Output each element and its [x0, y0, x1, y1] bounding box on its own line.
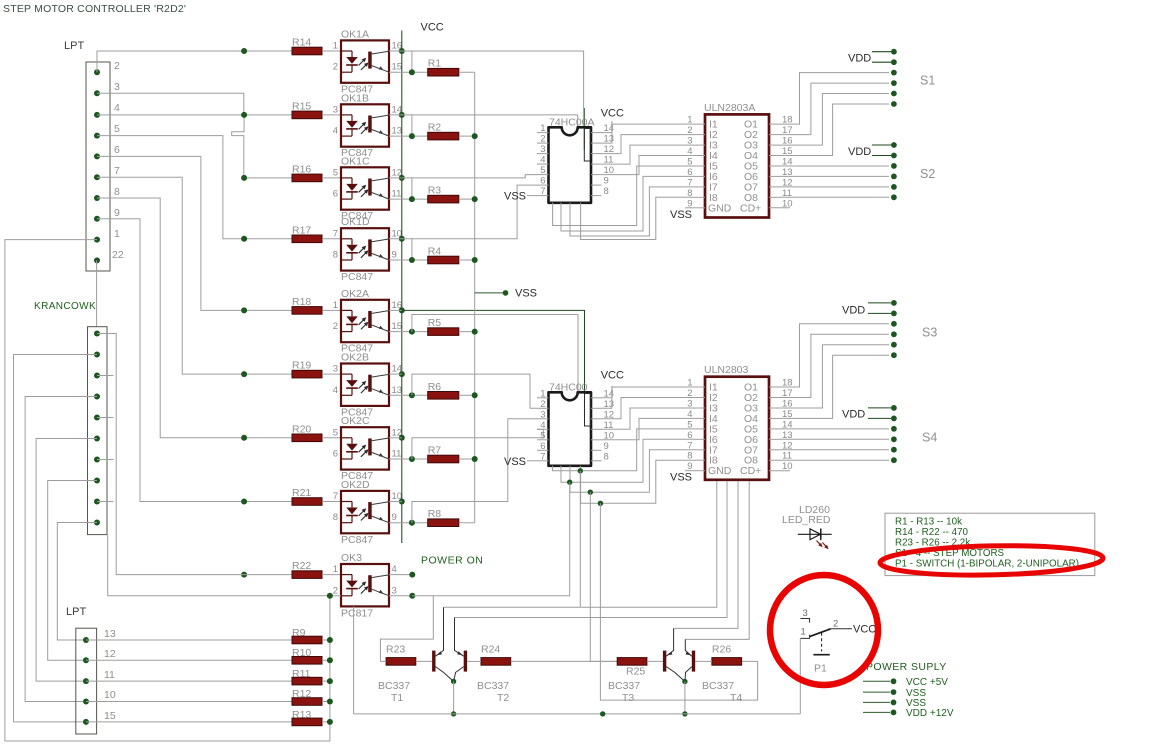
svg-text:R23: R23 [386, 644, 405, 656]
svg-text:R1 - R13 -- 10k: R1 - R13 -- 10k [895, 517, 962, 528]
svg-text:VDD: VDD [842, 305, 865, 317]
svg-text:R25: R25 [626, 666, 645, 678]
optocoupler OK1A [333, 28, 402, 95]
svg-text:4: 4 [114, 102, 120, 114]
wire OK3 pin4 stub [389, 572, 415, 578]
wire T4 base feed loop [600, 503, 757, 700]
svg-text:4: 4 [333, 126, 338, 137]
svg-text:12: 12 [104, 648, 116, 660]
resistor R18 [292, 296, 341, 314]
svg-text:10: 10 [104, 689, 116, 701]
wire OK1B collector row to gate [389, 115, 578, 127]
svg-text:13: 13 [392, 385, 403, 396]
svg-text:4: 4 [333, 385, 338, 396]
optocoupler OK2C [333, 415, 402, 482]
resistor R25 [617, 658, 663, 678]
wire T3 collector net [674, 481, 738, 628]
wire T4 collector net [685, 481, 749, 639]
svg-text:3: 3 [114, 81, 120, 93]
IC U1 74HC00A [537, 117, 614, 203]
VCC green feed HC2 [402, 310, 585, 415]
node taps to transistors [567, 468, 603, 506]
wire OK1C collector row to gate [389, 175, 537, 178]
connector S3 [891, 300, 897, 358]
wire OK2 collector stubs [389, 310, 402, 501]
svg-text:6: 6 [333, 189, 338, 200]
optocoupler OK2A [333, 288, 402, 355]
connector S1 [891, 49, 897, 107]
resistor R21 [292, 487, 341, 505]
svg-text:R17: R17 [292, 224, 311, 236]
svg-text:T4: T4 [730, 692, 742, 704]
KRANCOWK pins [94, 331, 100, 526]
VCC label U3 [601, 370, 624, 398]
resistor R2 [428, 122, 475, 140]
svg-text:PC847: PC847 [341, 271, 373, 283]
VDD label S4 [842, 408, 891, 421]
resistor R1 [428, 58, 475, 76]
svg-text:S4: S4 [922, 431, 937, 445]
svg-text:2: 2 [540, 134, 545, 145]
resistor R23 [380, 644, 432, 666]
wires U3 outputs to U4 inputs [553, 387, 695, 503]
VSS label U1 [504, 191, 537, 203]
parts list box [885, 513, 1095, 575]
wire K8 left loop [48, 481, 97, 661]
connector S4 [891, 405, 897, 463]
wire T1 collector net [444, 471, 717, 607]
svg-text:5: 5 [333, 427, 338, 438]
svg-text:VSS: VSS [670, 472, 692, 484]
node T1 T2 emitter [451, 679, 456, 717]
svg-text:8: 8 [333, 250, 338, 261]
resistor R3 [428, 185, 475, 203]
VDD label S2 [848, 145, 891, 158]
svg-text:9: 9 [604, 441, 609, 452]
wire T2 collector net [455, 481, 728, 618]
resistor R26 [695, 644, 741, 666]
wire K6 left loop [36, 439, 97, 682]
svg-text:LED_RED: LED_RED [782, 514, 831, 526]
resistor R8 [428, 508, 475, 526]
wire K2 left loop [14, 355, 98, 722]
svg-text:LPT: LPT [66, 606, 86, 618]
VCC green rail top [402, 31, 585, 544]
svg-text:GND: GND [708, 202, 732, 214]
svg-text:6: 6 [540, 176, 545, 187]
wire T3 base feed [590, 492, 617, 661]
transistor T3 BC337 [608, 628, 685, 704]
svg-text:PC847: PC847 [341, 534, 373, 546]
svg-text:11: 11 [104, 669, 115, 681]
trunk dots R10-R13 [327, 637, 333, 725]
svg-text:S1: S1 [920, 74, 935, 88]
wires U4 outputs to S3 [780, 324, 890, 460]
wires U2 outputs to S1 [780, 73, 890, 198]
svg-text:3: 3 [803, 608, 808, 619]
svg-text:VCC: VCC [853, 624, 876, 636]
resistor R15 [292, 100, 341, 118]
VSS label U2 [670, 208, 695, 221]
svg-text:11: 11 [392, 189, 402, 200]
wire zigzag to R16 [232, 115, 292, 178]
wire pin2 to R14 [97, 51, 292, 72]
svg-text:15: 15 [392, 321, 403, 332]
svg-text:OK1A: OK1A [341, 28, 369, 40]
svg-text:ULN2803A: ULN2803A [704, 102, 755, 114]
svg-text:11: 11 [392, 449, 402, 460]
power pin VSS2 [863, 698, 926, 709]
IC U3 74HC00 [537, 382, 614, 466]
wire pin6 to R18 [97, 156, 292, 310]
wire K3 stub [97, 375, 114, 377]
VSS trunk right of R1-R8 [474, 72, 476, 523]
power pin VDD [863, 708, 954, 719]
wire T1 base feed [380, 482, 569, 661]
svg-text:2: 2 [540, 399, 545, 410]
resistor R16 [292, 163, 341, 181]
resistor R7 [428, 445, 475, 463]
trunk dots [472, 133, 478, 462]
resistor R24 [467, 644, 617, 666]
svg-text:1: 1 [114, 228, 120, 240]
svg-text:6: 6 [333, 449, 338, 460]
VSS stub mid [475, 288, 537, 300]
svg-text:8: 8 [114, 186, 120, 198]
svg-text:2: 2 [833, 619, 838, 630]
svg-text:OK1D: OK1D [341, 216, 370, 228]
wire pin22 down [96, 260, 98, 326]
resistor R4 [428, 246, 475, 264]
svg-text:VSS: VSS [504, 191, 526, 203]
wire pin4 to R15 [97, 114, 292, 116]
power pin VSS [863, 688, 926, 699]
svg-text:4: 4 [540, 155, 545, 166]
svg-text:5: 5 [540, 430, 545, 441]
wire K7 stub [97, 459, 114, 461]
svg-text:R3: R3 [428, 185, 442, 197]
svg-text:3: 3 [392, 585, 397, 596]
svg-text:2: 2 [114, 60, 120, 72]
svg-text:R16: R16 [292, 163, 311, 175]
svg-text:9: 9 [114, 207, 120, 219]
wire OK3 pin3 stub [389, 593, 415, 599]
resistor R5 [428, 317, 475, 335]
resistor R14 [292, 37, 341, 55]
wire emitter rows to R1-R8 [389, 72, 428, 523]
svg-text:8: 8 [604, 186, 609, 197]
svg-text:15: 15 [104, 710, 116, 722]
svg-text:OK1B: OK1B [341, 92, 369, 104]
resistor R19 [292, 360, 341, 378]
svg-text:VSS: VSS [504, 456, 526, 468]
LPT pins [94, 69, 100, 263]
svg-text:VCC: VCC [601, 108, 624, 120]
resistor R9 [292, 627, 330, 644]
svg-text:CD+: CD+ [740, 465, 761, 477]
wire K9 stub [97, 501, 114, 503]
svg-text:BC337: BC337 [608, 680, 640, 692]
wire OK3 pin2 left [108, 535, 341, 599]
wire pin9 to R21 [97, 219, 292, 502]
svg-text:3: 3 [333, 364, 338, 375]
svg-text:S3: S3 [922, 326, 937, 340]
svg-text:OK1C: OK1C [341, 155, 370, 167]
svg-text:7: 7 [333, 491, 338, 502]
LPT2 pins [83, 637, 89, 725]
VDD label S1 [848, 52, 891, 65]
resistor R6 [428, 381, 475, 399]
optocoupler OK1C [333, 155, 402, 222]
wire R5 net to gate2 [412, 315, 578, 393]
wire K4 left loop [25, 397, 97, 702]
svg-text:1: 1 [540, 123, 545, 134]
svg-text:2: 2 [333, 321, 338, 332]
svg-text:P1 - SWITCH (1-BIPOLAR, 2-UNIP: P1 - SWITCH (1-BIPOLAR, 2-UNIPOLAR) [895, 559, 1079, 570]
connector S2 [891, 142, 897, 200]
wire pin8 to R20 [97, 198, 292, 438]
connector KRANCOWK [34, 301, 107, 535]
svg-text:VCC: VCC [421, 22, 444, 34]
switch P1 [801, 608, 853, 675]
svg-text:CD+: CD+ [740, 202, 761, 214]
wire pin7 to R19 [97, 177, 292, 374]
node T3 T4 emitter [682, 679, 687, 717]
svg-text:3: 3 [333, 104, 338, 115]
svg-text:LPT: LPT [64, 40, 84, 52]
svg-text:VDD: VDD [842, 409, 865, 421]
LED LD260 [782, 504, 832, 549]
svg-text:10: 10 [782, 461, 793, 472]
svg-text:OK2A: OK2A [341, 288, 369, 300]
wire K5 stub [97, 417, 114, 419]
svg-text:VSS: VSS [670, 209, 692, 221]
wire OK1A collector row to gate [389, 51, 584, 127]
transistor T2 BC337 [454, 618, 510, 705]
VSS label U4 [670, 471, 695, 484]
svg-text:3: 3 [540, 144, 545, 155]
svg-text:STEP MOTOR CONTROLLER 'R2D2': STEP MOTOR CONTROLLER 'R2D2' [3, 3, 186, 15]
wires U1 outputs to U2 inputs [553, 124, 695, 239]
resistor R22 [292, 560, 341, 578]
svg-text:OK2D: OK2D [341, 479, 370, 491]
svg-text:10: 10 [782, 198, 793, 209]
red ellipse around parts note [880, 544, 1104, 578]
svg-text:T1: T1 [391, 692, 403, 704]
svg-text:VSS: VSS [515, 288, 537, 300]
IC U2 ULN2803A [687, 102, 792, 218]
svg-text:5: 5 [114, 123, 120, 135]
svg-text:7: 7 [540, 186, 545, 197]
svg-text:13: 13 [392, 126, 403, 137]
svg-text:PC817: PC817 [341, 608, 373, 620]
optocoupler OK2B [333, 352, 402, 419]
svg-text:6: 6 [114, 144, 120, 156]
optocoupler OK3 [333, 552, 397, 620]
connector LPT (bottom) [66, 606, 97, 734]
svg-text:VDD: VDD [848, 53, 871, 65]
wire K10 left loop [57, 523, 97, 641]
svg-text:5: 5 [540, 165, 545, 176]
svg-text:POWER ON: POWER ON [421, 555, 483, 567]
transistor T1 BC337 [378, 607, 454, 704]
junction dots R14-R22 feed [241, 48, 247, 578]
svg-text:VDD +12V: VDD +12V [906, 708, 954, 719]
LPT2 pin numbers [104, 628, 116, 722]
svg-text:VCC +5V: VCC +5V [906, 677, 948, 688]
svg-text:7: 7 [540, 451, 545, 462]
wire bottom emitter rail [354, 606, 801, 716]
resistor R13 [292, 709, 330, 726]
power pin VCC [863, 677, 948, 688]
red circle around P1 [770, 575, 878, 685]
wire K1 to R22 [97, 334, 292, 575]
svg-text:1: 1 [333, 41, 338, 52]
svg-text:R24: R24 [481, 644, 500, 656]
svg-text:1: 1 [540, 388, 545, 399]
wire R7 net to gate2 [412, 429, 543, 459]
svg-text:9: 9 [392, 512, 397, 523]
resistor R17 [292, 224, 341, 242]
svg-text:R15: R15 [292, 100, 311, 112]
svg-text:6: 6 [540, 441, 545, 452]
svg-text:T3: T3 [622, 692, 634, 704]
svg-text:9: 9 [392, 250, 397, 261]
IC U4 ULN2803 [687, 364, 792, 480]
VCC label U1 [601, 108, 624, 133]
svg-text:S2: S2 [920, 167, 935, 181]
resistor R20 [292, 423, 341, 441]
wire R6 net to gate2 [412, 374, 537, 408]
wire corner jogs group1 [411, 51, 413, 260]
svg-text:VDD: VDD [848, 146, 871, 158]
svg-text:1: 1 [333, 564, 338, 575]
wire OK1D collector row to gate [389, 185, 537, 239]
svg-text:8: 8 [333, 512, 338, 523]
svg-text:OK3: OK3 [341, 552, 362, 564]
wire pin3 jog [97, 93, 244, 115]
svg-text:ULN2803: ULN2803 [704, 364, 749, 376]
resistor R10 [292, 647, 330, 664]
svg-text:7: 7 [114, 165, 120, 177]
svg-text:13: 13 [104, 628, 116, 640]
optocoupler OK1B [333, 92, 402, 159]
wire pin5 to R17 [97, 136, 292, 239]
svg-text:BC337: BC337 [378, 680, 410, 692]
wire P1 riser [799, 638, 801, 714]
node dots R left [409, 69, 415, 526]
svg-text:9: 9 [604, 176, 609, 187]
svg-text:BC337: BC337 [477, 680, 509, 692]
svg-text:OK2C: OK2C [341, 415, 370, 427]
wires LPT2 to R9-R13 [86, 640, 292, 722]
svg-text:POWER SUPLY: POWER SUPLY [866, 661, 947, 673]
svg-text:R1: R1 [428, 58, 442, 70]
VCC green dots [399, 48, 405, 505]
VDD label S3 [842, 303, 891, 317]
svg-text:R4: R4 [428, 246, 442, 258]
svg-text:T2: T2 [497, 692, 509, 704]
svg-text:GND: GND [708, 465, 732, 477]
svg-text:P1: P1 [814, 663, 827, 675]
svg-text:BC337: BC337 [702, 680, 734, 692]
optocoupler OK1D [333, 216, 402, 283]
LPT pin numbers [112, 60, 124, 261]
svg-text:1: 1 [801, 627, 806, 638]
transistor T4 BC337 [685, 639, 743, 704]
resistor R11 [292, 668, 330, 685]
svg-text:1: 1 [333, 300, 338, 311]
svg-text:OK2B: OK2B [341, 352, 369, 364]
svg-text:R14 - R22 -- 470: R14 - R22 -- 470 [895, 527, 969, 538]
svg-text:7: 7 [333, 228, 338, 239]
wire pin1 outer loop [5, 240, 330, 741]
svg-text:5: 5 [333, 167, 338, 178]
svg-text:4: 4 [392, 564, 397, 575]
svg-text:8: 8 [604, 451, 609, 462]
svg-text:22: 22 [112, 249, 124, 261]
svg-text:R2: R2 [428, 122, 442, 134]
svg-text:3: 3 [540, 409, 545, 420]
svg-text:15: 15 [392, 62, 403, 73]
svg-text:4: 4 [540, 420, 545, 431]
svg-text:R26: R26 [712, 644, 731, 656]
optocoupler OK2D [333, 479, 402, 546]
svg-text:2: 2 [333, 585, 338, 596]
svg-text:2: 2 [333, 62, 338, 73]
connector LPT (top) [64, 40, 110, 271]
svg-text:KRANCOWK: KRANCOWK [34, 301, 96, 312]
VSS label U3 [504, 456, 537, 468]
svg-text:VCC: VCC [601, 370, 624, 382]
resistor R12 [292, 688, 330, 705]
wire R8 net to gate2 [412, 419, 537, 523]
